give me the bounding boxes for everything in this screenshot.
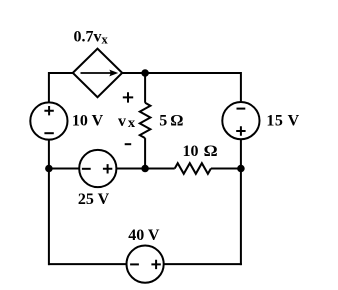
wire bottom-left to 40V	[48, 263, 127, 265]
svg-text:x: x	[128, 115, 135, 130]
plus sign 15V	[236, 126, 245, 135]
wire top from diamond to top-right corner	[122, 72, 241, 74]
plus sign 10V	[44, 106, 53, 115]
svg-text:15 V: 15 V	[266, 113, 299, 130]
svg-text:Ω: Ω	[204, 143, 218, 160]
plus sign vx	[123, 92, 133, 102]
svg-text:5: 5	[159, 113, 167, 130]
wire left vertical upper	[48, 72, 50, 102]
wire 5-ohm bottom to node	[144, 138, 146, 168]
svg-text:25 V: 25 V	[78, 191, 110, 208]
node top (diamond output)	[141, 69, 149, 77]
wire 25V to 10-ohm	[116, 168, 175, 170]
plus sign 25V	[103, 164, 112, 173]
minus sign 15V	[237, 108, 246, 110]
arrow inside dependent source	[81, 72, 112, 74]
svg-text:40 V: 40 V	[128, 227, 160, 244]
wire top-left horizontal	[49, 72, 73, 74]
voltage source 10 V	[30, 102, 67, 139]
plus sign 40V	[151, 260, 160, 269]
svg-text:Ω: Ω	[170, 113, 183, 130]
wire left vertical lower	[48, 169, 50, 266]
resistor 5 ohm	[140, 103, 151, 138]
wire 10-ohm to right node	[211, 168, 241, 170]
wire mid-left to 25V	[49, 168, 80, 170]
svg-text:0.7vx: 0.7vx	[74, 29, 109, 47]
svg-text:10 V: 10 V	[72, 113, 104, 130]
wire left vertical from 10V to node	[48, 140, 50, 169]
wire 40V to bottom-right corner	[164, 263, 242, 265]
minus sign vx	[125, 143, 132, 145]
node mid-center	[141, 165, 149, 173]
voltage source 15 V	[222, 102, 259, 139]
minus sign 10V	[44, 132, 53, 134]
wire right vertical to 15V top	[240, 72, 242, 102]
voltage source 40 V	[127, 246, 164, 283]
minus sign 40V	[130, 263, 139, 265]
minus sign 25V	[82, 168, 91, 170]
svg-text:10: 10	[183, 143, 199, 160]
svg-text:v: v	[118, 113, 126, 130]
resistor 10 ohm	[175, 163, 211, 174]
wire node to 5-ohm top	[144, 73, 146, 103]
node mid-right	[237, 165, 245, 173]
voltage source 25 V	[79, 150, 116, 187]
wire 15V bottom to node	[240, 139, 242, 168]
node mid-left	[45, 165, 53, 173]
dependent source diamond 0.7vx	[73, 49, 122, 98]
wire right vertical lower	[240, 169, 242, 266]
